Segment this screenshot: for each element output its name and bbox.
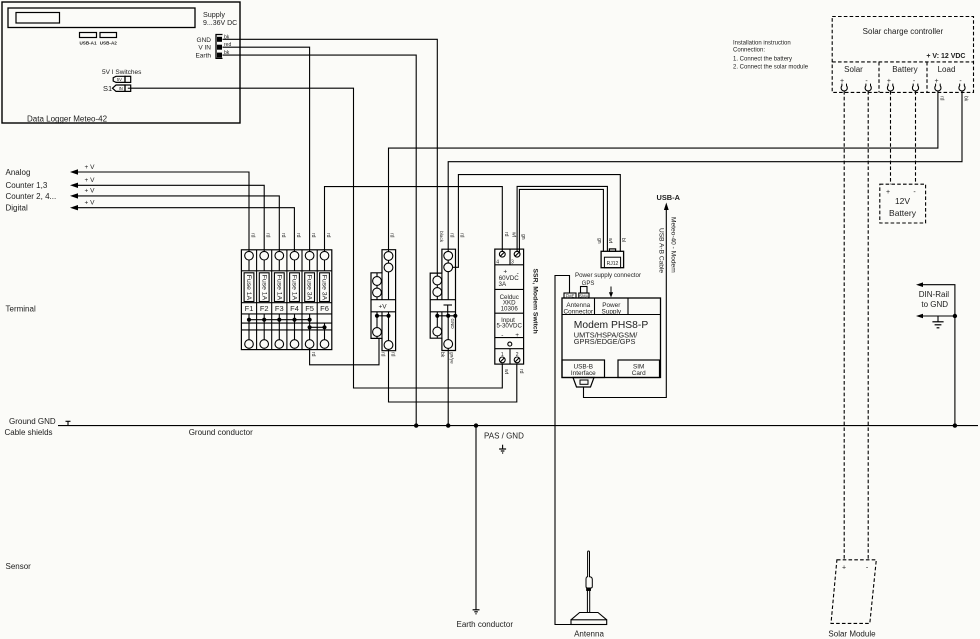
svg-text:FME: FME	[566, 293, 575, 298]
svg-text:bk: bk	[962, 96, 968, 102]
earth symbol (DIN-rail)	[937, 316, 939, 322]
5V supply tag	[113, 76, 125, 82]
svg-text:Interface: Interface	[571, 370, 596, 377]
svg-text:Supply: Supply	[203, 10, 225, 19]
svg-text:+V: +V	[379, 303, 388, 310]
svg-text:gn/ye: gn/ye	[449, 352, 455, 364]
RJ12 power plug	[601, 251, 624, 267]
svg-text:12V: 12V	[895, 196, 910, 206]
svg-text:Supply: Supply	[602, 308, 622, 315]
svg-text:rd: rd	[389, 233, 395, 238]
svg-text:+: +	[842, 564, 846, 571]
arrow Counter 1,3 +V	[70, 183, 78, 188]
wire Battery - (dashed)	[915, 91, 917, 184]
wire F6 top to SSR terminal 4 (rd)	[325, 187, 503, 252]
svg-text:GPS: GPS	[582, 281, 595, 287]
solar module	[831, 560, 876, 624]
wire RJ12 bl to GND terminal	[453, 175, 621, 268]
fuse F1 (Fuse 1A)	[245, 251, 254, 260]
wire GND (bk) datalogger to GND terminal	[223, 39, 438, 273]
fuse F2 (Fuse 1A)	[260, 251, 269, 260]
wire Earth (bk) datalogger to ground conductor	[223, 55, 417, 426]
svg-text:+: +	[886, 189, 890, 196]
wire FME to antenna	[555, 276, 571, 625]
svg-text:9...36V DC: 9...36V DC	[203, 20, 237, 27]
svg-text:PAS / GND: PAS / GND	[484, 432, 524, 441]
earth conductor wire	[475, 426, 477, 610]
svg-text:Fuse 3A: Fuse 3A	[306, 275, 313, 301]
svg-text:2: 2	[516, 352, 519, 358]
svg-text:black: black	[438, 231, 444, 243]
svg-text:Fuse 1A: Fuse 1A	[275, 275, 282, 301]
svg-text:+ V: + V	[85, 164, 96, 171]
junction (DIN rail)	[953, 423, 957, 427]
wire Load - to GND terminal (bk)	[448, 91, 962, 249]
svg-text:Load: Load	[938, 65, 956, 74]
fuse F3 (Fuse 1A)	[275, 251, 284, 260]
svg-text:+: +	[934, 78, 938, 85]
fuse F6 (Fuse 3A)	[320, 251, 329, 260]
svg-text:USB-A: USB-A	[657, 193, 681, 202]
svg-text:Counter 2, 4...: Counter 2, 4...	[6, 192, 57, 201]
svg-text:Solar Module: Solar Module	[828, 629, 876, 638]
svg-text:Antenna: Antenna	[574, 630, 604, 639]
svg-text:wt: wt	[607, 238, 613, 244]
svg-text:GND: GND	[197, 37, 212, 44]
svg-text:GND: GND	[450, 319, 455, 330]
svg-text:Counter 1,3: Counter 1,3	[6, 181, 48, 190]
12V battery	[880, 184, 926, 223]
svg-text:rd: rd	[938, 96, 944, 101]
svg-text:Fuse 1A: Fuse 1A	[245, 275, 252, 301]
svg-text:F5: F5	[305, 304, 314, 313]
svg-text:F6: F6	[320, 304, 329, 313]
svg-text:Meteo-40 - Modem: Meteo-40 - Modem	[669, 217, 676, 273]
svg-text:rd: rd	[390, 352, 396, 357]
display window	[8, 8, 195, 28]
svg-text:Installation instruction: Installation instruction	[733, 40, 791, 46]
earth symbol (conductor end)	[473, 609, 480, 611]
svg-text:rd: rd	[280, 233, 286, 238]
svg-text:Ground GND: Ground GND	[9, 417, 56, 426]
svg-text:rd: rd	[295, 233, 301, 238]
svg-text:rd: rd	[503, 232, 509, 237]
cable shield tap	[67, 421, 69, 425]
junction (earth wire)	[414, 423, 418, 427]
svg-text:USB A-B Cable: USB A-B Cable	[657, 228, 664, 273]
solar charge controller box	[832, 17, 973, 93]
svg-text:Earth: Earth	[195, 53, 211, 60]
svg-text:Battery: Battery	[892, 65, 917, 74]
svg-text:GPRS/EDGE/GPS: GPRS/EDGE/GPS	[574, 337, 636, 346]
USB cable modem to USB-A	[584, 208, 667, 398]
svg-text:F4: F4	[290, 304, 299, 313]
svg-text:-: -	[501, 332, 503, 339]
svg-text:Fuse 3A: Fuse 3A	[321, 275, 328, 301]
fuse block body	[241, 250, 331, 350]
svg-text:Fuse 1A: Fuse 1A	[260, 275, 267, 301]
svg-text:10306: 10306	[501, 305, 519, 312]
svg-text:F1: F1	[245, 304, 254, 313]
wire Digital +V to fuse	[78, 208, 294, 252]
fuse busbar F5-F6	[310, 326, 325, 328]
svg-text:gn: gn	[596, 238, 602, 244]
svg-text:Power supply connector: Power supply connector	[575, 272, 641, 279]
svg-text:bk: bk	[439, 352, 445, 358]
svg-text:F2: F2	[260, 304, 269, 313]
svg-text:1. Connect the battery: 1. Connect the battery	[733, 56, 792, 62]
switch S1 IN tag	[113, 85, 126, 91]
svg-text:gn: gn	[520, 234, 526, 240]
wire S1 switch to SSR input 1	[131, 88, 503, 388]
earth symbol (PAS/GND)	[502, 445, 504, 449]
wire DIN-rail gnd arrow	[921, 315, 955, 317]
svg-text:Digital: Digital	[6, 204, 28, 213]
svg-text:to GND: to GND	[921, 300, 948, 309]
svg-text:+ V: + V	[85, 177, 96, 184]
svg-text:wt: wt	[503, 369, 509, 375]
svg-text:rd: rd	[250, 233, 256, 238]
wire +V terminal to SSR input 2 (rd)	[389, 351, 517, 402]
svg-text:F3: F3	[275, 304, 284, 313]
svg-text:Connector: Connector	[564, 308, 594, 315]
svg-text:2. Connect the solar module: 2. Connect the solar module	[733, 65, 809, 71]
svg-text:Cable shields: Cable shields	[5, 428, 53, 437]
svg-text:Analog: Analog	[6, 168, 31, 177]
svg-text:IN: IN	[119, 86, 123, 91]
wire SSR 3 to RJ12 wt	[517, 186, 607, 252]
FME connector	[564, 293, 576, 298]
wire Counter 1,3 +V to fuse	[78, 185, 264, 251]
svg-text:5-30VDC: 5-30VDC	[496, 322, 522, 329]
GND distribution terminal block	[430, 249, 455, 350]
arrow Analog +V	[70, 169, 78, 174]
svg-text:4: 4	[496, 260, 499, 266]
svg-text:Solar charge controller: Solar charge controller	[863, 27, 944, 36]
svg-text:Solar: Solar	[844, 65, 863, 74]
svg-text:Terminal: Terminal	[6, 305, 36, 314]
svg-text:Data Logger Meteo-42: Data Logger Meteo-42	[27, 114, 108, 123]
svg-text:1: 1	[501, 352, 504, 358]
arrow Counter 2,4 +V	[70, 193, 78, 198]
fuse F4 (Fuse 1A)	[290, 251, 299, 260]
fuse F5 (Fuse 3A)	[305, 251, 314, 260]
wire Solar + (dashed)	[843, 91, 845, 560]
svg-text:rd: rd	[379, 352, 385, 357]
svg-text:SSR, Modem Switch: SSR, Modem Switch	[532, 269, 539, 334]
svg-text:rd: rd	[325, 233, 331, 238]
USB-B plug	[573, 378, 594, 388]
arrow Digital +V	[70, 205, 78, 210]
wire DIN-rail to ground	[921, 285, 955, 426]
SSR relay U1 (Celduc XKD 10306)	[495, 249, 524, 364]
USB-A2 port	[100, 33, 117, 38]
svg-text:rd: rd	[459, 233, 465, 238]
svg-text:Connection:: Connection:	[733, 48, 765, 54]
svg-text:3: 3	[511, 260, 514, 266]
svg-text:rd: rd	[448, 233, 454, 238]
wire Analog +V to fuse	[78, 172, 249, 251]
svg-text:rd: rd	[265, 233, 271, 238]
wire GND terminal to ground conductor	[447, 351, 449, 426]
power connector J1	[216, 35, 223, 59]
arrow DIN-rail bottom	[916, 314, 923, 319]
modem PHS8-P	[562, 298, 661, 378]
arrow USB-A	[664, 203, 669, 211]
svg-text:RJ12: RJ12	[607, 261, 619, 267]
wire Solar - (dashed)	[867, 91, 869, 560]
svg-text:Battery: Battery	[889, 208, 917, 218]
svg-text:+ V: + V	[85, 188, 96, 195]
junction (PAS/GND)	[474, 423, 478, 427]
svg-text:5V I Switches: 5V I Switches	[102, 69, 142, 76]
svg-text:rd: rd	[518, 369, 524, 374]
display inner rectangle	[16, 13, 60, 24]
SMA connector	[579, 293, 589, 298]
svg-text:USB-A1: USB-A1	[79, 41, 97, 46]
fuse busbar F1-F5	[249, 319, 310, 321]
svg-text:+ V: 12 VDC: + V: 12 VDC	[926, 53, 965, 60]
svg-text:rd: rd	[310, 233, 316, 238]
svg-text:Sensor: Sensor	[6, 562, 32, 571]
svg-text:3A: 3A	[499, 281, 507, 288]
svg-text:S1: S1	[103, 84, 112, 93]
svg-text:+ V: + V	[85, 200, 96, 207]
arrow DIN-rail top	[916, 282, 923, 287]
svg-text:Fuse 1A: Fuse 1A	[291, 275, 298, 301]
wire Counter 2,4 +V to fuse	[78, 196, 279, 251]
wire V IN (red) datalogger to fuse F5	[223, 47, 310, 251]
antenna	[571, 620, 607, 625]
svg-text:wt: wt	[510, 232, 516, 238]
svg-text:Earth conductor: Earth conductor	[457, 620, 514, 629]
svg-text:+: +	[887, 78, 891, 85]
wire F5 bottom to +V terminal (rd)	[310, 338, 379, 364]
svg-text:+: +	[515, 332, 519, 339]
svg-text:bl: bl	[620, 238, 626, 242]
+V distribution terminal block	[371, 250, 396, 351]
ground conductor rail	[58, 425, 978, 427]
wire SSR 3 to RJ12 gn	[519, 189, 603, 252]
svg-text:Ground conductor: Ground conductor	[189, 428, 253, 437]
svg-text:V IN: V IN	[198, 45, 211, 52]
controller divider	[832, 61, 973, 63]
svg-text:DIN-Rail: DIN-Rail	[919, 290, 949, 299]
junction DIN-rail	[953, 314, 957, 318]
svg-text:SMA: SMA	[579, 293, 588, 298]
svg-text:USB-A2: USB-A2	[100, 41, 118, 46]
svg-text:Card: Card	[632, 370, 646, 377]
USB-A1 port	[80, 33, 97, 38]
svg-text:5V: 5V	[117, 77, 122, 82]
arrow to power supply	[610, 287, 612, 294]
wire Load + to +V terminal (rd)	[389, 91, 938, 250]
wire Battery + (dashed)	[890, 91, 892, 184]
junction (GND terminal)	[446, 423, 450, 427]
data logger Meteo-42 enclosure	[2, 2, 240, 123]
svg-text:rd: rd	[310, 352, 316, 357]
